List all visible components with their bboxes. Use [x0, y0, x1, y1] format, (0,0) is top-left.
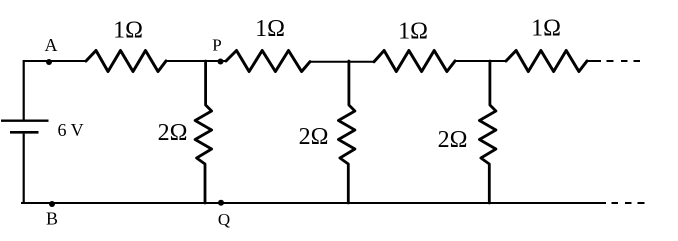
svg-text:P: P — [212, 36, 221, 55]
svg-text:6 V: 6 V — [58, 120, 84, 140]
svg-text:2Ω: 2Ω — [438, 127, 468, 153]
svg-text:A: A — [45, 35, 58, 55]
svg-text:1Ω: 1Ω — [113, 18, 143, 44]
svg-text:B: B — [46, 208, 58, 228]
svg-text:1Ω: 1Ω — [255, 16, 285, 42]
svg-text:1Ω: 1Ω — [398, 19, 428, 45]
svg-text:2Ω: 2Ω — [158, 120, 188, 146]
svg-text:1Ω: 1Ω — [531, 16, 561, 42]
svg-text:Q: Q — [218, 210, 230, 229]
svg-text:2Ω: 2Ω — [299, 124, 329, 150]
